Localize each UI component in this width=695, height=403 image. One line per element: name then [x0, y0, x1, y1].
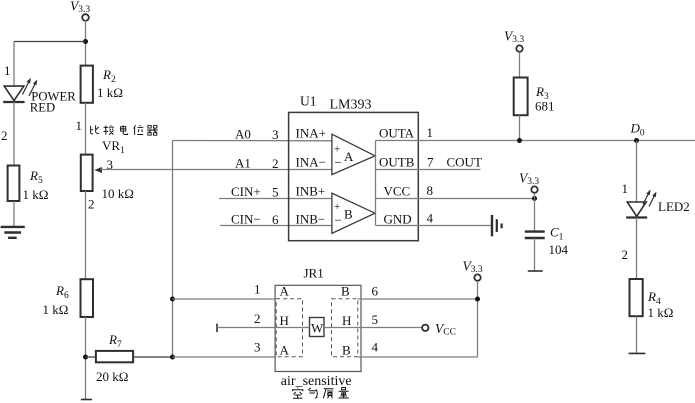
- svg-text:RED: RED: [30, 101, 55, 115]
- power terminal V3.3 (top left): [70, 0, 90, 21]
- svg-text:LED2: LED2: [658, 199, 690, 214]
- svg-text:INA−: INA−: [296, 155, 326, 170]
- svg-text:2: 2: [254, 311, 261, 326]
- wire: R4 down to stub: [636, 316, 638, 353]
- node: junction pin6/V3.3/pin4: [475, 297, 480, 302]
- wire: JR1 pin4 right and up: [358, 356, 478, 358]
- svg-text:A: A: [280, 284, 290, 299]
- svg-text:A: A: [344, 149, 354, 164]
- svg-text:H: H: [280, 313, 289, 328]
- svg-text:8: 8: [427, 183, 434, 198]
- svg-text:A: A: [280, 343, 290, 358]
- svg-text:CIN+: CIN+: [231, 184, 261, 199]
- svg-text:INB−: INB−: [296, 212, 326, 227]
- svg-text:JR1: JR1: [304, 266, 324, 281]
- ground (left): [1, 227, 25, 238]
- svg-text:LM393: LM393: [330, 98, 372, 113]
- svg-text:OUTA: OUTA: [379, 126, 415, 141]
- svg-text:−: −: [335, 213, 342, 228]
- svg-text:10 kΩ: 10 kΩ: [102, 186, 134, 201]
- node: junction pin8 / V3.3 / C1: [532, 196, 537, 201]
- wire: R5 to ground: [13, 201, 15, 227]
- wire: JR1 pin6 to V3.3 junction: [358, 298, 478, 300]
- wire: OUTA pin1 out to D0 line: [376, 140, 695, 142]
- svg-text:7: 7: [427, 155, 434, 170]
- wire: VCC pin8 to V3.3/C1: [376, 198, 535, 200]
- wire: C1 down to stub: [534, 238, 536, 271]
- svg-text:104: 104: [549, 242, 569, 257]
- power terminal V3.3 (above R3): [504, 29, 524, 52]
- svg-text:COUT: COUT: [447, 155, 482, 170]
- capacitor C1: [525, 232, 545, 238]
- svg-text:CIN−: CIN−: [231, 212, 261, 227]
- op-amp U1 LM393 box: [289, 112, 419, 240]
- resistor R3: [514, 78, 528, 116]
- wire: junction to R7 left: [86, 356, 96, 358]
- ground (sideways, right of pin 4): [492, 215, 502, 236]
- node: junction at V3.3 rail: [83, 39, 88, 44]
- open stub termination (bottom left): [81, 399, 92, 401]
- resistor R2: [81, 66, 93, 103]
- svg-text:+: +: [334, 201, 340, 213]
- wire: CIN+ stub to INB+: [219, 198, 332, 200]
- wire: VR1 down to R6: [85, 191, 87, 279]
- svg-text:1 kΩ: 1 kΩ: [648, 305, 674, 320]
- svg-text:1 kΩ: 1 kΩ: [43, 302, 69, 317]
- svg-text:1 kΩ: 1 kΩ: [23, 187, 49, 202]
- comparator B triangle: [332, 193, 375, 233]
- svg-text:INB+: INB+: [296, 184, 326, 199]
- svg-text:VCC: VCC: [384, 184, 411, 199]
- svg-text:2: 2: [622, 247, 629, 262]
- svg-text:681: 681: [535, 99, 555, 114]
- svg-text:1: 1: [4, 63, 11, 78]
- wire: down to LED POWER anode: [13, 42, 15, 87]
- svg-text:H: H: [342, 313, 351, 328]
- svg-text:A0: A0: [235, 127, 251, 142]
- svg-text:INA+: INA+: [296, 126, 326, 141]
- resistor R7 (horizontal): [96, 351, 133, 362]
- open stub termination (under C1): [528, 270, 543, 272]
- wire: A1 net from VR1 wiper to INA-: [101, 169, 332, 171]
- wire: V3.3 to R3: [519, 52, 521, 78]
- wire: JR1 pin5 to VCC terminal: [324, 327, 422, 329]
- svg-text:1: 1: [622, 181, 629, 196]
- wire: V3.3 terminal down to junction and R2: [85, 20, 87, 65]
- svg-text:B: B: [344, 207, 353, 222]
- svg-text:2: 2: [88, 197, 95, 212]
- sensor JR1 box: [275, 285, 361, 371]
- node: junction R6/R7: [83, 355, 88, 360]
- resistor R4: [630, 279, 643, 316]
- svg-text:B: B: [341, 284, 350, 299]
- wire: R2 down to VR1: [85, 103, 87, 155]
- svg-text:−: −: [335, 155, 342, 170]
- wire: GND pin4 to ground: [376, 225, 492, 227]
- wire: LED2 down to R4: [636, 218, 638, 280]
- wire: JR1 pin2 with open bar: [216, 324, 218, 332]
- svg-text:OUTB: OUTB: [379, 155, 415, 170]
- electrode letters A H A / B H B: [280, 284, 352, 358]
- wire: JR1 pin1: [173, 298, 277, 300]
- LED2: [626, 190, 656, 218]
- wire: R6 down to bottom stub: [85, 317, 87, 400]
- wire: net column x=172 (A0 down to JR1 pin3): [172, 141, 174, 358]
- inner output separator line: [375, 141, 377, 226]
- heater W box: [310, 318, 325, 337]
- dashed heater element boxes of JR1: [276, 299, 358, 357]
- wire: junction down to C1: [534, 193, 536, 231]
- svg-text:6: 6: [372, 284, 379, 299]
- power terminal V3.3 (above JR1 pin6): [463, 259, 483, 281]
- wire: junction left to LED branch: [14, 41, 86, 43]
- wire: V3.3 down to pin6 junction: [477, 281, 479, 299]
- svg-text:U1: U1: [300, 94, 317, 109]
- svg-text:5: 5: [372, 312, 379, 327]
- svg-text:1: 1: [427, 125, 434, 140]
- svg-text:4: 4: [372, 340, 379, 355]
- svg-text:3: 3: [254, 340, 261, 355]
- wire: LED cathode down to R5: [13, 102, 15, 166]
- svg-text:1 kΩ: 1 kΩ: [97, 85, 123, 100]
- resistor R6: [81, 279, 94, 317]
- wire: A0 net to INA+: [172, 140, 332, 142]
- svg-text:air_sensitive: air_sensitive: [281, 374, 352, 389]
- label comparison potentiometer (Chinese: bijiao dianweiqi): [91, 125, 158, 135]
- LED POWER RED (D, pin1 top pin2 bottom): [3, 78, 37, 102]
- node: junction at JR1 pin1: [170, 297, 175, 302]
- comparator A triangle: [332, 134, 375, 174]
- wire: R3 down to OUTA line: [519, 115, 521, 140]
- power terminal V3.3 (above C1): [519, 171, 539, 193]
- svg-text:A1: A1: [235, 156, 251, 171]
- svg-text:6: 6: [272, 212, 279, 227]
- wiper arrow of VR1: [94, 167, 102, 173]
- svg-text:5: 5: [272, 185, 279, 200]
- wire: JR1 pin3: [173, 356, 277, 358]
- svg-text:3: 3: [272, 127, 279, 142]
- svg-text:2: 2: [1, 128, 8, 143]
- open stub termination (under R4): [629, 352, 646, 354]
- svg-text:2: 2: [272, 156, 279, 171]
- svg-text:20 kΩ: 20 kΩ: [96, 369, 128, 384]
- svg-text:GND: GND: [384, 212, 412, 227]
- label air quality (Chinese: kongqi zhiliang): [292, 388, 348, 399]
- wire: R7 right to net column: [133, 356, 172, 358]
- potentiometer VR1 body: [81, 155, 93, 191]
- wire: CIN- stub to INB-: [220, 225, 332, 227]
- wire: OUTB pin7 stub COUT: [376, 169, 481, 171]
- terminal VCC: [422, 325, 428, 331]
- svg-text:1: 1: [76, 118, 83, 133]
- svg-text:B: B: [342, 343, 351, 358]
- node: junction at JR1 pin3 / R7: [170, 355, 175, 360]
- svg-text:4: 4: [427, 211, 434, 226]
- svg-text:+: +: [334, 144, 340, 156]
- node: junction R3/OUTA: [517, 138, 522, 143]
- resistor R5: [8, 166, 20, 202]
- svg-text:1: 1: [254, 282, 261, 297]
- svg-text:W: W: [311, 321, 324, 336]
- wire: D0 down to LED2: [636, 141, 638, 203]
